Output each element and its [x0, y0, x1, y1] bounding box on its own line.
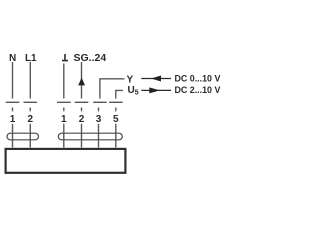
svg-text:1: 1 [61, 114, 67, 125]
svg-text:3: 3 [96, 114, 102, 125]
cable gland left (oval) [7, 133, 39, 140]
terminal tick 1 SG [57, 101, 71, 103]
svg-text:DC 2...10 V: DC 2...10 V [175, 85, 221, 95]
wire stub below 2 SG [81, 124, 83, 148]
wire terminal 5 SG (U5 output) [116, 90, 123, 98]
wire terminal 2 SG (supply) [81, 62, 83, 99]
wire stub below 2 left [29, 124, 31, 148]
wire N terminal 1 [12, 62, 14, 99]
wire stub below 1 SG [63, 124, 65, 148]
terminal tick 2 left [24, 101, 38, 103]
terminal tick 5 SG [109, 101, 123, 103]
svg-text:U5: U5 [128, 85, 139, 97]
wire stub above number 2 left [29, 108, 31, 112]
wire stub above number 3 SG [98, 108, 100, 112]
arrow left (signal in) [141, 76, 171, 82]
wire stub below 5 SG [115, 124, 117, 148]
wire terminal 3 SG (Y input) [100, 79, 125, 99]
svg-text:Y: Y [127, 74, 134, 85]
terminal tick 2 SG [75, 101, 89, 103]
arrow up on wire 2 [78, 78, 85, 86]
wire stub above number 1 left [12, 108, 14, 112]
wire stub below 1 left [12, 124, 14, 148]
svg-text:SG..24: SG..24 [74, 52, 107, 64]
arrow right (signal out) [141, 87, 171, 93]
svg-text:L1: L1 [25, 53, 37, 64]
wire stub above number 5 SG [115, 108, 117, 112]
actuator body [6, 149, 126, 173]
svg-text:1: 1 [10, 114, 16, 125]
wire stub above number 1 SG [63, 108, 65, 112]
svg-text:2: 2 [28, 114, 34, 125]
wire stub below 3 SG [98, 124, 100, 148]
svg-text:5: 5 [113, 114, 119, 125]
ground symbol (terminal 1 of SG..24) [62, 54, 68, 61]
svg-text:2: 2 [79, 114, 85, 125]
wire L1 terminal 2 [29, 62, 31, 99]
terminal tick 1 left [6, 101, 20, 103]
wire terminal 1 SG [63, 64, 65, 99]
wire stub above number 2 SG [81, 108, 83, 112]
terminal tick 3 SG [93, 101, 107, 103]
cable gland right (oval) [58, 133, 122, 140]
svg-text:DC 0...10 V: DC 0...10 V [175, 73, 221, 83]
